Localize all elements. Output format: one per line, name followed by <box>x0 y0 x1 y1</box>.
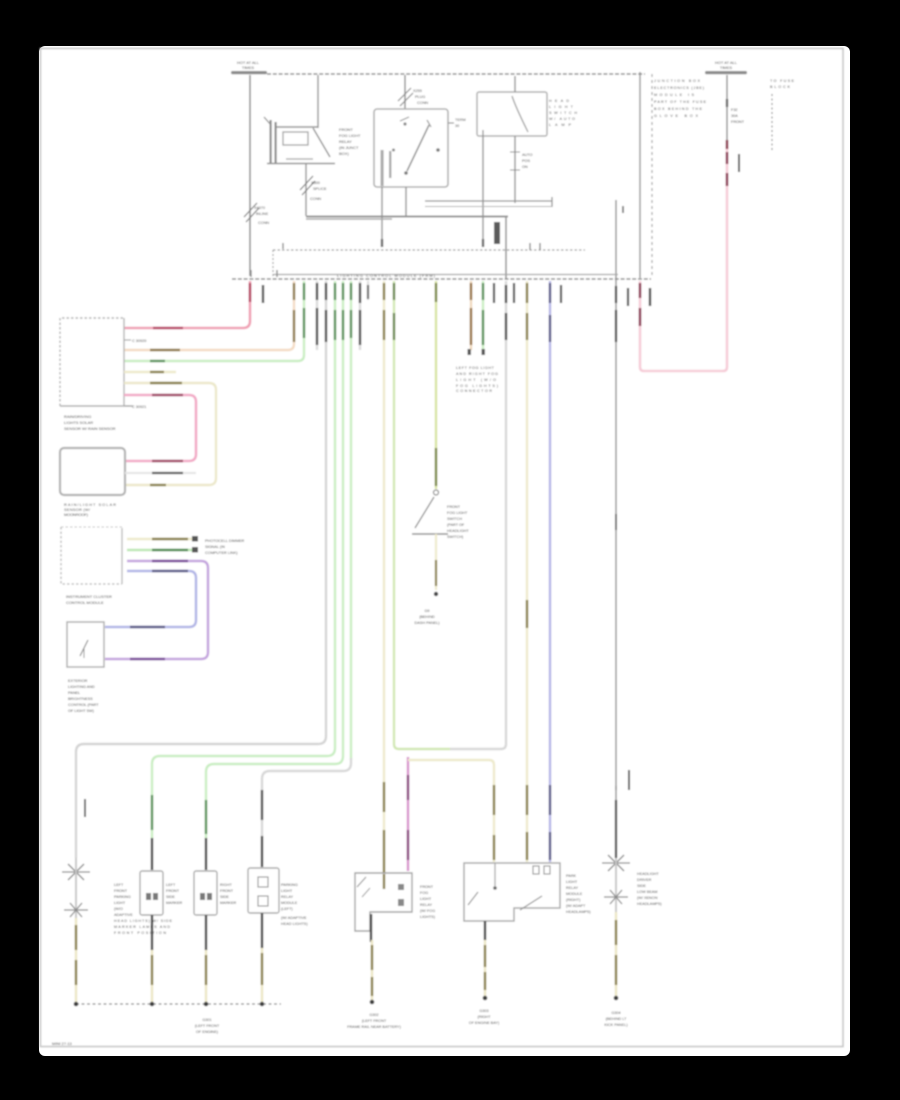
fog indicator switch sym <box>434 490 439 495</box>
svg-text:FRONT: FRONT <box>339 127 353 132</box>
module M1 connector dashed bus <box>232 278 651 280</box>
svg-text:FOG: FOG <box>420 891 428 895</box>
svg-text:ADAPTIVE: ADAPTIVE <box>114 913 133 917</box>
relay K2 switch arm <box>407 125 429 171</box>
svg-text:FRONT: FRONT <box>447 505 461 509</box>
svg-text:CONTROL MODULE: CONTROL MODULE <box>66 600 104 605</box>
lamp5 bulb sym lower <box>604 896 628 898</box>
svg-text:MINI 27-13: MINI 27-13 <box>52 1041 73 1046</box>
wire GN to lamp2 <box>152 281 335 838</box>
dashed stub far right <box>771 94 773 150</box>
svg-text:RIGHT: RIGHT <box>220 883 232 887</box>
node C horizontal <box>425 200 552 202</box>
wire GN to sensor box <box>124 281 304 361</box>
svg-text:TIMES: TIMES <box>242 65 255 70</box>
svg-text:(BEHIND LT: (BEHIND LT <box>606 1017 627 1021</box>
connector C2 on wire <box>300 176 313 190</box>
lamp4 ground wire <box>261 913 263 948</box>
svg-text:X4370: X4370 <box>254 206 265 210</box>
svg-text:RELAY: RELAY <box>420 903 433 907</box>
svg-text:CONNECTOR: CONNECTOR <box>456 389 492 393</box>
svg-text:FOG LIGHT: FOG LIGHT <box>447 511 468 515</box>
dimmer box U4 <box>67 622 104 667</box>
ground dot G <box>614 996 619 1001</box>
svg-text:POS: POS <box>522 159 530 163</box>
pin x494 <box>493 283 495 303</box>
wire BU to center box <box>549 281 551 862</box>
lamp2 box <box>140 871 163 915</box>
U3 wire BU loop <box>105 571 196 627</box>
svg-text:CONTROL (PART: CONTROL (PART <box>68 703 99 707</box>
junction box dashed edge <box>651 74 653 278</box>
lamp3 ground wire <box>205 915 207 950</box>
svg-text:TO FUSE: TO FUSE <box>770 79 794 83</box>
U1 pin label row8 <box>124 405 131 407</box>
svg-text:INLINE: INLINE <box>256 212 269 216</box>
svg-text:OF ENGINE): OF ENGINE) <box>196 1030 219 1034</box>
svg-text:PART OF THE FUSE: PART OF THE FUSE <box>654 100 706 104</box>
svg-text:MARKER: MARKER <box>220 901 237 905</box>
svg-text:(W/ XENON: (W/ XENON <box>637 896 658 900</box>
switch S1 box <box>477 92 547 136</box>
wire GY stub x317 <box>316 281 318 350</box>
pin x514 <box>513 283 515 303</box>
wire node B to module <box>505 216 507 279</box>
svg-text:HEAD LIGHTS): HEAD LIGHTS) <box>281 922 308 926</box>
svg-text:LIGHTS): LIGHTS) <box>420 915 436 919</box>
svg-text:BRIGHTNESS: BRIGHTNESS <box>68 697 93 701</box>
junction box vertical wire <box>639 72 641 278</box>
fog relay box K3 <box>355 873 412 931</box>
center box M2 <box>464 863 560 921</box>
svg-text:MARKER LAMPS AND: MARKER LAMPS AND <box>114 925 170 929</box>
svg-text:PLUG: PLUG <box>415 95 425 99</box>
ground dot C <box>204 1002 209 1007</box>
svg-text:TIMES: TIMES <box>720 65 733 70</box>
svg-text:JUNCTION BOX: JUNCTION BOX <box>654 79 700 83</box>
U1 pin label row2 <box>124 339 131 341</box>
switch contact marks <box>510 151 520 153</box>
svg-text:HEADLAMPS): HEADLAMPS) <box>637 902 662 906</box>
connector on wire to relay K2 <box>404 75 406 125</box>
svg-text:BOX BEHIND THE: BOX BEHIND THE <box>654 107 702 111</box>
svg-text:MOONROOF): MOONROOF) <box>64 512 89 517</box>
svg-text:FRONT: FRONT <box>114 889 128 893</box>
svg-text:LIGHTS SOLAR: LIGHTS SOLAR <box>64 420 93 425</box>
svg-text:EXTERIOR: EXTERIOR <box>68 679 88 683</box>
svg-text:RELAY: RELAY <box>281 895 294 899</box>
svg-text:F32: F32 <box>731 108 738 112</box>
svg-text:(LEFT FRONT: (LEFT FRONT <box>362 1019 387 1023</box>
svg-text:LIGHT: LIGHT <box>281 889 293 893</box>
svg-text:MODULE: MODULE <box>281 901 298 905</box>
svg-text:LIGHT: LIGHT <box>420 897 432 901</box>
U2 row2 pale wire <box>125 472 196 474</box>
ground dot B <box>150 1002 155 1007</box>
svg-text:PANEL: PANEL <box>68 691 80 695</box>
wire GN to lamp3 <box>206 281 343 838</box>
pin x561 <box>560 285 562 303</box>
svg-text:CONN: CONN <box>417 101 428 105</box>
svg-text:(RIGHT: (RIGHT <box>477 1015 491 1019</box>
wire K2 coil down <box>381 187 383 247</box>
svg-text:G304: G304 <box>611 1011 620 1015</box>
wire GY loop right leg <box>450 281 506 749</box>
wire RD to sensor box <box>124 281 250 328</box>
svg-text:ELECTRONICS (JBE): ELECTRONICS (JBE) <box>654 86 705 90</box>
wire from F1 down <box>249 75 251 276</box>
lamp1 bulb sym upper <box>62 871 90 873</box>
relay K1 <box>264 117 271 125</box>
wire TN stub pair <box>470 281 472 350</box>
svg-text:(LEFT): (LEFT) <box>281 907 294 911</box>
svg-text:BOX): BOX) <box>339 151 349 156</box>
svg-text:SIDE: SIDE <box>166 895 175 899</box>
svg-text:FRONT: FRONT <box>731 120 745 124</box>
svg-text:C 30920: C 30920 <box>132 339 146 343</box>
wire GY right lamp pins <box>615 286 617 303</box>
svg-text:(PART OF: (PART OF <box>447 523 465 527</box>
ground dot A <box>74 1002 79 1007</box>
svg-text:G301: G301 <box>202 1018 211 1022</box>
svg-text:30A: 30A <box>731 114 738 118</box>
svg-text:AUTO: AUTO <box>522 153 533 157</box>
wire GN to lamp4 <box>350 281 352 760</box>
lamp1 wire mid <box>75 858 77 918</box>
module pin ticks <box>282 243 284 249</box>
ground bus dashed <box>76 1003 281 1005</box>
wire YE to center box <box>526 281 528 862</box>
lamp3 box <box>194 871 217 915</box>
K3 ground wire <box>370 914 372 942</box>
svg-text:RAIN/DRIVING: RAIN/DRIVING <box>64 414 91 419</box>
pin x650 <box>649 288 651 306</box>
svg-text:ON: ON <box>522 165 528 169</box>
wire GN-YE to fog switch sym <box>435 281 437 489</box>
svg-text:MODULE: MODULE <box>566 892 583 896</box>
svg-text:G302: G302 <box>369 1013 378 1017</box>
sensor box U1 <box>60 318 124 406</box>
svg-text:SENSOR W/ RAIN SENSOR: SENSOR W/ RAIN SENSOR <box>64 426 116 431</box>
svg-text:OF LIGHT SW): OF LIGHT SW) <box>68 709 95 713</box>
ground dot F <box>483 996 488 1001</box>
svg-text:30: 30 <box>455 124 459 128</box>
svg-text:FRONT: FRONT <box>220 889 234 893</box>
svg-text:KICK PANEL): KICK PANEL) <box>604 1023 628 1027</box>
lamp1 ground wire <box>75 918 77 1002</box>
M2 ground wire <box>484 921 486 940</box>
svg-text:X300: X300 <box>311 181 320 185</box>
pin x263 <box>262 285 264 303</box>
wire YE short row5 <box>124 371 176 373</box>
svg-text:MODULE IS: MODULE IS <box>654 93 694 97</box>
wire F2 down <box>726 75 728 148</box>
module M1 dashed outline <box>273 249 585 251</box>
pin x368 <box>367 281 369 300</box>
svg-text:AND RIGHT FOG: AND RIGHT FOG <box>456 372 498 376</box>
fuse F1 <box>231 71 267 74</box>
svg-text:LEFT FOG LIGHT: LEFT FOG LIGHT <box>456 366 495 370</box>
svg-text:LIGHTING AND: LIGHTING AND <box>68 685 95 689</box>
fuse F2 <box>705 71 747 74</box>
wire YE loop to solar box <box>124 383 216 485</box>
svg-text:FRONT: FRONT <box>420 885 434 889</box>
U3 wire YE stub <box>127 538 193 540</box>
ground dot E <box>370 1000 375 1005</box>
svg-text:CONN: CONN <box>310 197 321 201</box>
svg-text:RELAY: RELAY <box>339 139 352 144</box>
cluster box U3 <box>61 527 122 584</box>
svg-text:FRONT: FRONT <box>166 889 180 893</box>
svg-text:(W/ ADAPTIVE: (W/ ADAPTIVE <box>281 916 307 920</box>
wire long right vertical <box>615 200 617 790</box>
wire to relay K1 <box>317 75 319 128</box>
svg-text:(RIGHT): (RIGHT) <box>566 898 581 902</box>
svg-text:HEAD LIGHTS) W/ SIDE: HEAD LIGHTS) W/ SIDE <box>114 919 172 923</box>
relay K2 right pin <box>448 122 454 124</box>
svg-text:PARKING: PARKING <box>281 883 298 887</box>
wire S1 switch out <box>514 136 516 203</box>
relay K2 coil <box>381 150 384 186</box>
svg-text:RELAY: RELAY <box>566 886 579 890</box>
wire W-RD pink from F2 <box>640 146 727 371</box>
wire VT to fog relay <box>407 757 409 871</box>
svg-text:SWITCH: SWITCH <box>447 517 462 521</box>
svg-text:(W/ FOG: (W/ FOG <box>420 909 435 913</box>
wire YE long to fog relay <box>383 281 385 873</box>
svg-text:SPLICE: SPLICE <box>313 187 327 191</box>
svg-text:SIGNAL (IN: SIGNAL (IN <box>205 545 225 549</box>
svg-text:MARKER: MARKER <box>166 901 183 905</box>
lamp1 bulb sym lower <box>64 909 88 911</box>
svg-text:HEADLIGHT: HEADLIGHT <box>447 529 469 533</box>
wire TN to sensor box <box>124 281 294 350</box>
svg-text:LEFT: LEFT <box>166 883 176 887</box>
svg-text:DRIVER: DRIVER <box>637 878 652 882</box>
wire below fog switch <box>435 534 437 590</box>
wire GY stub x360 <box>359 281 361 350</box>
pin x628 <box>627 288 629 306</box>
lamp5 wire mid <box>615 858 617 912</box>
svg-text:FRAME RAIL NEAR BATTERY): FRAME RAIL NEAR BATTERY) <box>347 1025 401 1029</box>
svg-text:SIDE: SIDE <box>637 884 646 888</box>
svg-text:DASH PANEL): DASH PANEL) <box>414 621 440 625</box>
svg-text:(BEHIND: (BEHIND <box>419 615 435 619</box>
svg-text:PARKING: PARKING <box>114 895 131 899</box>
wire GN stub pair <box>482 281 484 350</box>
wire PK loop to solar box <box>124 395 196 461</box>
wire relay K1 to bus B <box>305 164 307 216</box>
svg-text:C 30921: C 30921 <box>132 405 146 409</box>
relay K2 box <box>374 109 448 187</box>
svg-text:INSTRUMENT CLUSTER: INSTRUMENT CLUSTER <box>66 594 112 599</box>
wire GY long to left lamp <box>76 281 326 858</box>
svg-text:OF ENGINE BAY): OF ENGINE BAY) <box>469 1021 500 1025</box>
lamp1 pin tick <box>84 799 86 817</box>
svg-text:HEADLIGHT: HEADLIGHT <box>637 872 659 876</box>
U3 wire GN stub <box>127 549 193 551</box>
svg-text:PHOTOCELL DIMMER: PHOTOCELL DIMMER <box>205 539 244 543</box>
svg-text:HEADLAMPS): HEADLAMPS) <box>566 910 591 914</box>
svg-text:LOW BEAM: LOW BEAM <box>637 890 657 894</box>
svg-text:TERM: TERM <box>455 118 466 122</box>
bus dashed top wire <box>267 73 645 75</box>
ground point G1 <box>434 592 438 596</box>
svg-text:(LEFT FRONT: (LEFT FRONT <box>195 1024 220 1028</box>
svg-text:COMPUTER LINK): COMPUTER LINK) <box>205 551 238 555</box>
lamp4 box <box>248 868 279 913</box>
svg-text:LIGHTING CONTROL MODULE (FRM): LIGHTING CONTROL MODULE (FRM) <box>337 273 436 278</box>
lamp5 ground wire <box>615 912 617 996</box>
svg-text:X255: X255 <box>413 89 422 93</box>
node B horizontal <box>306 216 508 218</box>
lamp2 ground wire <box>151 915 153 950</box>
svg-text:SWITCH): SWITCH) <box>447 535 464 539</box>
solar box U2 <box>60 448 125 495</box>
svg-text:G9: G9 <box>424 609 429 613</box>
wire GN loop left leg <box>394 281 450 749</box>
svg-text:LIGHT: LIGHT <box>566 880 578 884</box>
svg-text:LIGHT: LIGHT <box>114 901 126 905</box>
ground dot D <box>260 1002 265 1007</box>
svg-text:(W/O: (W/O <box>114 907 123 911</box>
U3 wire VT loop <box>105 561 208 659</box>
svg-text:(W/ ADAPT: (W/ ADAPT <box>566 904 586 908</box>
connector C1 on wire <box>244 203 257 217</box>
wire YE jog to center box <box>408 760 494 862</box>
svg-text:CONN: CONN <box>258 221 269 225</box>
svg-text:G303: G303 <box>479 1009 488 1013</box>
svg-text:FOG LIGHT: FOG LIGHT <box>339 133 361 138</box>
wire K2 switch down <box>405 187 407 216</box>
svg-text:(IN JUNCT: (IN JUNCT <box>339 145 359 150</box>
wire S1 pin to module <box>482 136 484 247</box>
lamp5 bulb sym upper <box>602 862 630 864</box>
svg-text:PARK: PARK <box>566 874 577 878</box>
svg-text:LEFT: LEFT <box>114 883 124 887</box>
svg-text:GLOVE BOX: GLOVE BOX <box>654 114 698 118</box>
svg-text:SIDE: SIDE <box>220 895 229 899</box>
